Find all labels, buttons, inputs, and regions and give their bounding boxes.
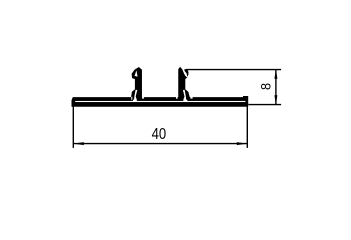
dim 40: right extension line — [246, 105, 248, 148]
profile strip inner cavity line — [75, 101, 245, 102]
left leg: surface-line break right of foot — [142, 97, 144, 99]
dim 40: dimension line — [73, 143, 247, 145]
svg-text:40: 40 — [152, 126, 167, 143]
left leg barb notch — [135, 70, 138, 76]
right leg barb stripe — [184, 69, 188, 77]
right leg: surface-line break left of foot — [176, 97, 178, 99]
dim 8: dimension line — [275, 69, 277, 104]
dim 40: right arrowhead — [237, 142, 248, 145]
left leg foot groove — [133, 90, 138, 102]
right snap leg (barbed wall) — [178, 67, 190, 99]
left snap leg (barbed wall) — [131, 67, 142, 99]
dim 8: bottom extension line from strip bottom — [248, 104, 281, 106]
dim 8: lower arrowhead — [274, 95, 277, 104]
dim 40: left extension line — [72, 106, 74, 147]
dim 8: top extension line from leg tip — [186, 69, 281, 71]
profile strip body (40mm flat bar) — [72, 96, 249, 107]
svg-text:8: 8 — [258, 83, 274, 90]
right leg: surface-line break right of foot — [190, 97, 192, 99]
left leg: surface-line break left of foot — [131, 97, 132, 100]
dim 8: upper arrowhead — [274, 69, 277, 78]
dim 40: left arrowhead — [73, 142, 84, 145]
right leg foot groove — [183, 90, 188, 102]
